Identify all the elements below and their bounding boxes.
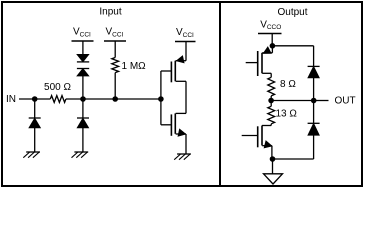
wire D4 anode to ground: [82, 128, 84, 152]
svg-text:1 MΩ: 1 MΩ: [122, 61, 147, 72]
diode D4 node clamp to GND: [77, 117, 89, 119]
power rail VCCO: [258, 33, 282, 35]
wire node F to D6 branch: [273, 158, 314, 160]
wire D3 anode to node B: [82, 76, 84, 118]
wire VCCI 2 rail to resistor R2: [114, 41, 116, 58]
node B junction dot: [80, 96, 86, 102]
wire node D to diode D5 branch: [272, 45, 313, 47]
wire VCCI 3 rail to Q1 source: [185, 42, 187, 61]
svg-text:500 Ω: 500 Ω: [44, 82, 71, 93]
ground below D1: [26, 151, 40, 153]
wire VCCO rail to node D: [271, 34, 273, 46]
resistor R2 1 Mohm: [112, 58, 119, 73]
diode D5 OUT clamp to VCCO: [308, 65, 320, 67]
transistor Q1 PMOS input: [176, 60, 186, 62]
wire resistor R4 to Q4 drain: [270, 124, 272, 126]
wire gate bus Q1 Q2: [160, 71, 162, 125]
diode D6 GND clamp to OUT: [308, 122, 320, 124]
transistor Q2 NMOS input: [176, 112, 186, 114]
ground below D4: [74, 151, 88, 153]
svg-text:Output: Output: [277, 7, 307, 18]
wire resistor R3 to node E: [270, 96, 272, 101]
wire Q1 drain to Q2 drain: [185, 81, 187, 113]
svg-text:OUT: OUT: [335, 96, 356, 107]
diode D1 input clamp to GND: [29, 117, 41, 119]
node F bottom junction dot: [270, 156, 276, 162]
power rail VCCI 2: [104, 40, 126, 42]
node gate bus junction dot: [158, 96, 164, 102]
wire node A to diode D1: [34, 99, 36, 118]
svg-text:Input: Input: [99, 7, 121, 18]
wire resistor R2 to node C: [114, 73, 116, 99]
wire Q4 source to node F: [271, 146, 273, 159]
wire node E to node OUT: [271, 100, 314, 102]
transistor Q4 NMOS output: [261, 126, 263, 146]
node E resistor mid junction dot: [268, 98, 274, 104]
wire node E to resistor R4: [270, 101, 272, 107]
ground below Q2: [177, 153, 191, 155]
wire Q2 source to ground: [185, 134, 187, 154]
wire D6 anode down: [313, 135, 315, 159]
resistor R4 13 ohm: [268, 106, 275, 124]
svg-text:13 Ω: 13 Ω: [276, 109, 298, 120]
svg-text:IN: IN: [6, 94, 16, 105]
transistor Q3 PMOS output: [271, 46, 273, 53]
power rail VCCI 1: [72, 40, 94, 42]
node OUT junction dot: [311, 98, 317, 104]
ground triangle below node F: [272, 159, 274, 174]
wire node OUT stub: [314, 100, 329, 102]
wire IN to resistor R1: [19, 98, 50, 100]
node D VCCO junction dot: [270, 43, 276, 49]
wire resistor R1 to gate bus node: [66, 98, 161, 100]
resistor R1 500 ohm: [50, 96, 66, 103]
resistor R3 8 ohm: [268, 77, 275, 96]
node C junction dot: [112, 96, 118, 102]
svg-text:8 Ω: 8 Ω: [280, 79, 296, 90]
wire D5 anode to node OUT: [313, 78, 315, 101]
wire node OUT to diode D6: [313, 101, 315, 124]
diode D3 series from node (anode down): [77, 68, 89, 70]
wire VCCI 1 rail to diode D2: [82, 41, 84, 55]
power rail VCCI 3: [175, 41, 196, 43]
wire D1 anode to ground: [34, 128, 36, 152]
diode D2 series from VCCI (anode up): [78, 55, 89, 62]
node A junction dot: [32, 96, 38, 102]
wire Q3 drain to resistor R3: [270, 73, 272, 77]
